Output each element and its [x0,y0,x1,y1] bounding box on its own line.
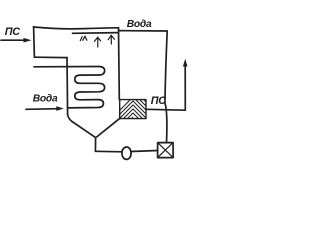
svg-text:ПС: ПС [151,95,166,107]
wire inner left wall [66,58,69,115]
wire drain vertical from funnel [94,138,96,152]
wire funnel right slope [97,119,120,137]
wire funnel left slope [68,115,96,138]
wire ПС exit stack with up arrow [183,59,188,110]
spray arrow s3 [108,35,114,44]
wire ПС inlet arrow line [1,38,32,43]
wire right wall [118,28,121,100]
wire ПС exit horizontal [146,108,185,111]
fan crossed square [158,143,174,158]
svg-text:Вода: Вода [127,19,152,30]
wire pump to fan [131,151,157,152]
wire top edge of apparatus [34,27,119,29]
packing hatched block [108,98,166,122]
wire left wall of inlet duct [33,27,36,58]
wire Вода outlet pipe top right [119,30,168,32]
wire right vertical down to fan [165,31,167,142]
pump circle [122,147,131,159]
wire drain horizontal to pump [95,150,122,153]
coil serpentine heat exchanger [34,67,105,108]
spray arrow s1 [80,36,87,40]
wire Вода inlet arrow left [26,106,64,111]
spray arrow s2 [94,37,100,47]
wire inner ceiling line [73,32,119,35]
svg-text:Вода: Вода [33,93,58,104]
wire shelf step [34,56,67,58]
svg-text:ПС: ПС [5,26,20,38]
